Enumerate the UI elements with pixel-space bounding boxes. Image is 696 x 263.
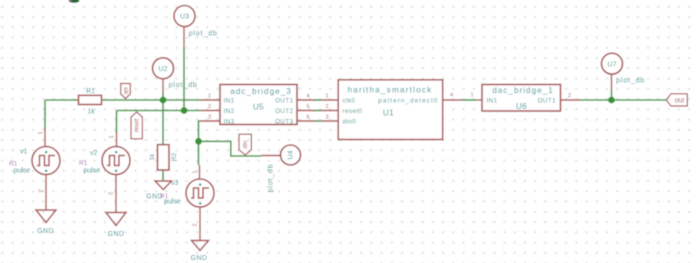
svg-text:IN1: IN1 [224,97,235,104]
svg-text:GND: GND [191,255,208,262]
svg-text:1: 1 [109,135,115,138]
svg-text:pulse: pulse [164,199,181,206]
adc_bridge_3 U5 [220,85,297,126]
wire U3 down to reset junction [183,47,185,111]
svg-text:plot_db: plot_db [268,164,275,193]
haritha pin 2 stub [321,104,338,111]
svg-text:v1: v1 [20,149,28,156]
svg-text:IN3: IN3 [224,118,235,125]
svg-text:U2: U2 [159,66,168,73]
svg-text:plot_db: plot_db [169,80,198,89]
svg-text:v2: v2 [90,150,98,157]
ground GND under v2 [106,213,126,239]
dac pin 1 stub [470,92,482,100]
ground GND under v1 [36,210,56,235]
svg-text:U3: U3 [180,14,189,21]
svg-text:1k: 1k [87,109,95,116]
junction din / v3 / U4 [195,138,202,145]
wire R1 to adc IN1 (clk net) [102,99,201,101]
wire din junction to U4 [199,141,262,156]
svg-text:GND: GND [146,194,163,201]
wire U2 down through clk junction to R2 [162,93,164,145]
resistor R2 [149,145,178,170]
resistor R1 [79,88,102,116]
svg-text:U5: U5 [253,103,264,112]
svg-text:1: 1 [470,92,473,98]
svg-text:4: 4 [450,93,453,99]
svg-text:R1: R1 [86,88,95,95]
global label out [666,94,687,106]
svg-text:2: 2 [193,223,199,226]
svg-text:clk: clk [122,87,128,95]
global label reset [131,112,142,139]
junction reset / U3 [181,107,188,114]
junction clk / U2 [160,97,167,104]
svg-text:adc_bridge_3: adc_bridge_3 [230,87,292,96]
voltage source v1 (pulse) [9,128,60,210]
svg-text:pattern_detect0: pattern_detect0 [378,97,438,104]
svg-text:plot_db: plot_db [189,28,218,37]
wire R2 to GND [162,170,164,181]
svg-text:5: 5 [306,104,309,110]
svg-text:2: 2 [39,189,45,192]
wire adc OUT2 to haritha pin2 [314,110,321,112]
svg-text:haritha_smartlock: haritha_smartlock [347,86,432,95]
dac_bridge_1 U6 [482,85,561,112]
wire adc IN3 down to v3 (din net) [199,121,201,165]
wire v1 top vertical [44,100,46,129]
svg-text:reset: reset [135,119,141,133]
svg-text:1: 1 [193,170,199,173]
svg-text:OUT1: OUT1 [538,97,556,104]
svg-text:OUT2: OUT2 [275,108,293,115]
svg-text:3: 3 [208,115,211,121]
svg-text:1: 1 [208,94,211,100]
svg-text:OUT1: OUT1 [275,97,293,104]
svg-text:GND: GND [37,228,54,235]
voltage source v2 (pulse) [79,132,130,213]
plot U7 (plot_db) [602,53,646,90]
svg-text:R1: R1 [9,161,18,168]
svg-text:R2: R2 [171,152,178,161]
wire U7 down to out net [611,90,613,100]
svg-text:1: 1 [325,94,328,100]
ground GND under R2 [146,181,171,201]
svg-text:U1: U1 [383,109,394,118]
global label din [239,134,251,155]
svg-text:out: out [675,98,685,105]
svg-text:pulse: pulse [84,168,101,175]
ground GND under v3 [191,241,209,263]
svg-text:U4: U4 [288,150,295,159]
svg-text:3: 3 [325,115,328,121]
svg-text:IN2: IN2 [224,108,235,115]
adc pin 1 stub [200,94,220,101]
global label clk [121,84,131,99]
svg-text:U6: U6 [516,102,527,111]
adc pin 3 stub [200,115,220,122]
svg-text:plot_db: plot_db [616,76,645,85]
wire dac OUT1 to out label [580,99,666,101]
svg-text:pulse: pulse [14,168,31,175]
adc pin 5 stub [297,104,315,111]
wire haritha out to dac IN1 [462,99,476,101]
svg-text:reset0: reset0 [343,108,363,115]
svg-text:2: 2 [325,104,328,110]
svg-text:2: 2 [208,104,211,110]
svg-text:din0: din0 [343,118,357,125]
plot U4 (plot_db) [261,145,301,192]
haritha_smartlock U1 [338,80,443,140]
svg-text:4: 4 [306,94,309,100]
haritha pin 1 stub [321,94,338,101]
adc pin 2 stub [200,104,220,111]
plot U2 (plot_db) [153,58,198,93]
wire v2 to adc IN2 (reset net) [117,110,201,112]
svg-text:OUT3: OUT3 [275,118,293,125]
wire v2 top vertical [116,111,118,134]
svg-text:2: 2 [568,93,571,99]
haritha pin 4 stub [443,93,462,101]
svg-text:U7: U7 [608,61,617,68]
svg-text:IN1: IN1 [487,97,498,104]
junction out / U7 [608,97,615,104]
svg-text:1k: 1k [149,153,156,161]
adc pin 6 stub [297,115,315,122]
svg-text:dac_bridge_1: dac_bridge_1 [492,86,554,95]
svg-text:1: 1 [38,131,44,134]
wire adc OUT3 to haritha pin3 [314,120,321,122]
dac pin 2 stub [561,93,581,100]
svg-text:din: din [243,140,249,148]
svg-text:2: 2 [109,192,115,195]
svg-text:clk0: clk0 [343,97,356,104]
svg-text:GND: GND [108,231,125,238]
haritha pin 3 stub [321,115,338,122]
svg-text:R1: R1 [79,160,88,167]
wire v1 to R1 (clk net) [45,99,79,101]
adc pin 4 stub [297,94,315,101]
cropped text artifact top edge [69,0,80,3]
svg-text:6: 6 [306,115,309,121]
plot U3 (plot_db) [174,6,218,48]
wire adc OUT1 to haritha pin1 [314,99,321,101]
voltage source v3 (pulse) [160,165,214,241]
